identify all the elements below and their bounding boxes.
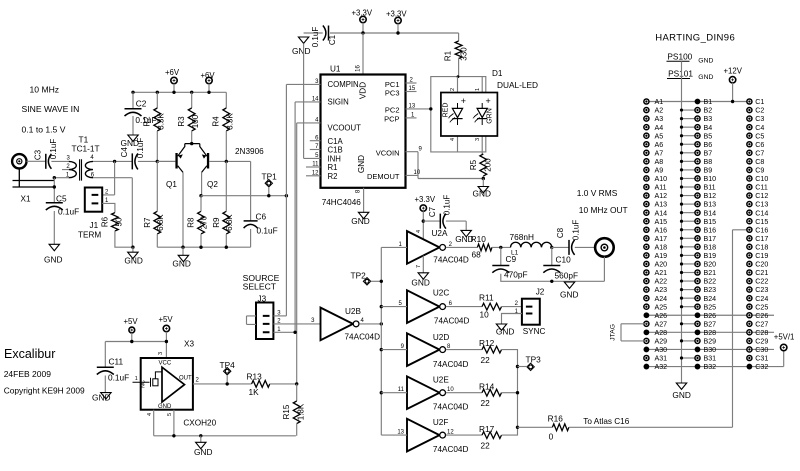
svg-text:A20: A20 [655, 261, 668, 269]
LED GRN element [477, 108, 487, 117]
HARTING row 17: pins A17 B17 C17 [644, 236, 649, 241]
svg-text:B26: B26 [704, 312, 717, 320]
junction rail/+6V1 [172, 91, 175, 94]
ground below X3 [196, 442, 206, 448]
svg-text:A8: A8 [655, 158, 664, 166]
HARTING row 22: pins A22 B22 C22 [644, 279, 649, 284]
svg-text:A18: A18 [655, 243, 668, 251]
svg-text:7: 7 [416, 265, 422, 268]
svg-text:74AC04D: 74AC04D [433, 445, 469, 454]
svg-text:C27: C27 [755, 320, 768, 328]
wire U1 pin14 SIGIN to J3 pin1 [295, 102, 320, 333]
svg-text:GND: GND [44, 255, 62, 265]
svg-text:OUT: OUT [179, 375, 192, 381]
wire GND stub row 31 [682, 357, 698, 359]
wire PS101 underline [667, 78, 690, 80]
wire T1 pin 1 to X1 shell node [54, 177, 68, 179]
op-amp U1 74HC4046 body [321, 75, 406, 188]
svg-text:U2A: U2A [432, 229, 448, 238]
HARTING row 2: pins A2 B2 C2 [644, 108, 649, 113]
svg-text:14: 14 [312, 97, 319, 103]
wire J3 jumper bracket [247, 316, 257, 325]
svg-text:B28: B28 [704, 329, 717, 337]
wire GND stub row 10 [682, 177, 698, 179]
svg-text:+5V: +5V [159, 315, 174, 324]
svg-text:TP2: TP2 [351, 271, 367, 281]
HARTING row 15: pins A15 B15 C15 [644, 219, 649, 224]
capacitor C4 [131, 153, 133, 169]
svg-text:GND: GND [698, 58, 713, 65]
junction J3 pin1/SIGIN line [293, 331, 296, 334]
inverter U2C 74AC04D [407, 290, 440, 323]
wire Q1 emitter down [182, 172, 184, 247]
svg-text:1.8K: 1.8K [297, 403, 306, 420]
svg-text:R5: R5 [469, 159, 478, 170]
junction bus/U2B out [380, 322, 383, 325]
svg-text:50: 50 [115, 217, 124, 226]
svg-text:GND: GND [672, 390, 690, 400]
svg-text:C4: C4 [755, 124, 764, 132]
wire X1 center to C3 [27, 160, 46, 162]
HARTING row 1: pins A1 B1 C1 [644, 99, 649, 104]
resistor R10 [477, 244, 492, 251]
svg-text:+: + [461, 96, 466, 106]
svg-text:A24: A24 [655, 295, 668, 303]
svg-text:A31: A31 [655, 355, 668, 363]
svg-text:R1: R1 [444, 50, 453, 61]
wire +3.3V drops [363, 23, 398, 33]
HARTING row 26: pins A26 B26 C26 [644, 312, 650, 318]
svg-text:1: 1 [135, 376, 138, 382]
svg-text:D1: D1 [492, 69, 503, 78]
junction R5/DEMOUT/GND [482, 177, 485, 180]
wire U1 pin6 stub [310, 140, 321, 142]
wire jack shell to rail [603, 257, 605, 282]
wire D1 cathode drops [458, 136, 483, 154]
wire rail to R4 [225, 92, 227, 108]
svg-text:10: 10 [480, 309, 490, 319]
wire Q2 base right [209, 160, 250, 162]
wire U1 pin1 stub [406, 117, 417, 119]
wire GND stub row 2 [682, 109, 698, 111]
wire rail to C2 [132, 92, 134, 109]
svg-text:RED: RED [443, 103, 450, 118]
wire U1 pin2 stub [406, 82, 417, 84]
svg-text:C6: C6 [755, 141, 764, 149]
junction L1/C10/C8 [550, 246, 553, 249]
svg-text:PC2: PC2 [385, 106, 400, 115]
svg-text:U2C: U2C [433, 289, 449, 298]
svg-text:C4: C4 [120, 147, 129, 158]
power +5V/1 [781, 344, 787, 350]
wire bus to U2A input [381, 246, 407, 248]
svg-text:A14: A14 [655, 209, 668, 217]
wire U1 pin7 stub [310, 149, 321, 151]
svg-text:10: 10 [414, 170, 421, 176]
svg-text:R9: R9 [212, 217, 221, 228]
svg-text:Excalibur: Excalibur [4, 347, 55, 361]
svg-text:GND: GND [124, 256, 142, 266]
svg-text:TERM: TERM [78, 231, 101, 240]
svg-text:X1: X1 [21, 195, 31, 204]
X3 internal oscillator symbol [162, 367, 185, 402]
svg-text:B20: B20 [704, 261, 717, 269]
svg-text:A27: A27 [655, 320, 668, 328]
resistor R6 [112, 213, 119, 231]
svg-text:11: 11 [398, 387, 405, 393]
junction VCC/C7 [422, 219, 425, 222]
junction R6/T1-6 ground [131, 246, 134, 249]
svg-text:3: 3 [475, 138, 481, 141]
wire U1 pin15 stub [406, 91, 417, 93]
junction bus/U2D [380, 348, 383, 351]
wire HARTING ground bus [681, 61, 683, 383]
svg-text:A7: A7 [655, 149, 664, 157]
wire R10 to L1 [492, 246, 511, 248]
svg-text:GND: GND [496, 327, 514, 337]
ground below C2 [128, 135, 138, 141]
svg-text:C19: C19 [755, 252, 768, 260]
svg-text:68: 68 [472, 250, 482, 260]
svg-text:1.0 V RMS: 1.0 V RMS [577, 188, 618, 198]
svg-text:3.3K: 3.3K [157, 113, 166, 130]
svg-text:A13: A13 [655, 201, 668, 209]
svg-text:74AC04D: 74AC04D [433, 403, 469, 412]
power +5V #2 [163, 325, 169, 331]
svg-text:PCP: PCP [384, 115, 399, 124]
junction rail/+3.3V2 [396, 31, 399, 34]
wire R1 to D1 [458, 59, 460, 77]
junction X3 pin5 [172, 434, 175, 437]
svg-text:TP3: TP3 [526, 355, 542, 365]
svg-text:A25: A25 [655, 303, 668, 311]
wire U2F out to R17 [446, 434, 482, 436]
wire To Atlas C16 to connector [569, 230, 750, 427]
inverter U2A 74AC04D [407, 231, 440, 264]
wire R3 to Q collectors [191, 131, 193, 144]
resistor R4 [223, 108, 230, 131]
svg-text:470pF: 470pF [504, 270, 528, 280]
junction rail/+3.3V1 [361, 31, 364, 34]
junction +5V1 [130, 340, 133, 343]
junction R17/R16 [516, 426, 519, 429]
svg-text:A32: A32 [655, 363, 668, 371]
wire GND stub row 9 [682, 169, 698, 171]
wire R9 leads [225, 161, 227, 247]
junction bus/TP2 [380, 280, 383, 283]
wire row 1 (+12V) A1-B1-C1 [646, 101, 749, 103]
svg-text:GND: GND [411, 278, 429, 288]
wire T1 pin 4 to C4 [93, 160, 132, 162]
power +3.3V #3 [420, 205, 426, 211]
HARTING row 8: pins A8 B8 C8 [644, 159, 649, 164]
wire C2 to GND [132, 116, 134, 135]
svg-text:B9: B9 [704, 167, 713, 175]
wire U2A GND stub [422, 256, 424, 273]
wire U1 pin11 stub [306, 166, 321, 168]
capacitor C1 [328, 26, 330, 41]
svg-text:J2: J2 [536, 288, 545, 297]
wire GND stub row 11 [682, 186, 698, 188]
svg-text:R17: R17 [479, 424, 495, 434]
HARTING row 14: pins A14 B14 C14 [644, 210, 649, 215]
capacitor C11 [97, 366, 114, 368]
wire GND stub row 7 [682, 152, 698, 154]
svg-text:22: 22 [481, 355, 491, 365]
svg-text:B25: B25 [704, 303, 717, 311]
svg-text:C8: C8 [755, 158, 764, 166]
wire to C9 [500, 247, 502, 265]
HARTING row 32: pins A32 B32 C32 [644, 364, 650, 370]
wire +6V rail [133, 91, 226, 93]
svg-text:TC1-1T: TC1-1T [72, 144, 100, 154]
svg-text:2: 2 [450, 88, 456, 91]
svg-text:R12: R12 [479, 338, 495, 348]
wire J3 pin1 [273, 331, 295, 333]
svg-text:GND: GND [158, 404, 172, 410]
wire rail to R3 [191, 92, 193, 108]
resistor R8 [198, 211, 205, 234]
svg-text:C9: C9 [755, 167, 764, 175]
capacitor C3 [45, 154, 47, 169]
svg-text:0.1 to 1.5 V: 0.1 to 1.5 V [22, 125, 66, 135]
wire U1 pin4 VCOOUT down [297, 123, 321, 384]
resistor R14 [482, 389, 501, 396]
svg-text:Q2: Q2 [207, 180, 218, 189]
svg-text:24FEB 2009: 24FEB 2009 [4, 369, 52, 379]
resistor R3 [188, 108, 195, 131]
svg-text:C18: C18 [755, 243, 768, 251]
wire rail to C11 [104, 342, 106, 368]
junction +12V/row1 [731, 100, 734, 103]
svg-text:22: 22 [481, 440, 491, 450]
svg-text:A12: A12 [655, 192, 668, 200]
svg-text:+6V: +6V [165, 68, 180, 77]
svg-text:GND: GND [473, 189, 491, 199]
svg-text:6.8K: 6.8K [225, 214, 234, 231]
svg-text:C14: C14 [755, 209, 768, 217]
svg-text:3.3K: 3.3K [226, 113, 235, 130]
transformer T1 TC1-1T [69, 161, 77, 177]
svg-text:C10: C10 [556, 255, 572, 265]
svg-text:VCOIN: VCOIN [376, 148, 400, 157]
junction R14/bus [516, 391, 519, 394]
svg-text:U2B: U2B [345, 307, 361, 316]
HARTING row 3: pins A3 B3 C3 [644, 116, 649, 121]
wire stub rail GND [182, 247, 184, 255]
capacitor C7 [439, 214, 441, 229]
svg-text:B23: B23 [704, 286, 717, 294]
wire R8 leads [200, 196, 202, 248]
resistor R9 [223, 211, 230, 234]
svg-text:C8: C8 [556, 227, 565, 238]
capacitor C5 [46, 202, 63, 204]
svg-text:DEMOUT: DEMOUT [367, 172, 400, 181]
svg-text:16: 16 [355, 65, 361, 72]
HARTING row 31: pins A31 B31 C31 [644, 355, 649, 360]
svg-text:B10: B10 [704, 175, 717, 183]
svg-text:R1: R1 [328, 163, 338, 172]
wire +12V drop [732, 83, 734, 102]
svg-text:A23: A23 [655, 286, 668, 294]
svg-text:GND: GND [194, 447, 212, 457]
wire bus to U2F input [381, 434, 407, 436]
HARTING row 21: pins A21 B21 C21 [644, 270, 649, 275]
svg-text:+3.3V: +3.3V [415, 195, 436, 204]
wire GND stub row 12 [682, 195, 698, 197]
svg-text:13: 13 [409, 104, 416, 110]
svg-text:R14: R14 [479, 381, 495, 391]
svg-text:1K: 1K [249, 387, 260, 397]
svg-text:A21: A21 [655, 269, 668, 277]
ground below C5 [49, 244, 59, 250]
wire stub to GND [482, 179, 484, 187]
wire PS100 underline [667, 60, 690, 62]
junction X1 shell / T1 pin1 [53, 176, 56, 179]
wire GND stub row 29 [682, 340, 698, 342]
svg-text:A19: A19 [655, 252, 668, 260]
svg-text:B18: B18 [704, 243, 717, 251]
svg-text:HARTING_DIN96: HARTING_DIN96 [655, 33, 735, 44]
svg-text:C13: C13 [755, 201, 768, 209]
junction bus/U2E [380, 391, 383, 394]
resistor R7 [154, 211, 161, 234]
svg-text:A15: A15 [655, 218, 668, 226]
svg-text:B15: B15 [704, 218, 717, 226]
svg-text:Copyright KE9H 2009: Copyright KE9H 2009 [4, 385, 85, 395]
wire X3 ground run [154, 435, 296, 437]
junction Q1/Q2 collectors [190, 142, 193, 145]
svg-text:B27: B27 [704, 320, 717, 328]
wire C8 to output jack [575, 246, 600, 248]
svg-text:0.1uF: 0.1uF [58, 207, 79, 217]
svg-text:B8: B8 [704, 158, 713, 166]
resistor R13 [252, 381, 270, 388]
svg-text:4: 4 [450, 138, 456, 141]
wire J2 pin1 to GND [502, 314, 522, 325]
svg-text:R11: R11 [479, 292, 494, 302]
svg-text:R8: R8 [186, 217, 195, 228]
svg-text:A1: A1 [655, 98, 664, 106]
HARTING row 25: pins A25 B25 C25 [644, 304, 649, 309]
wire TP4 stub [226, 375, 228, 384]
wire GND stub row 15 [682, 220, 698, 222]
svg-text:6.8K: 6.8K [156, 214, 165, 231]
svg-text:VCC: VCC [159, 361, 172, 367]
svg-text:B7: B7 [704, 149, 713, 157]
inverter U2E 74AC04D [407, 376, 440, 409]
svg-text:C24: C24 [755, 295, 768, 303]
HARTING row 29: pins A29 B29 C29 [644, 338, 649, 343]
svg-text:B3: B3 [704, 115, 713, 123]
svg-text:B31: B31 [704, 355, 717, 363]
svg-text:GND: GND [92, 393, 110, 403]
ground below J2 [496, 324, 506, 330]
wire GND stub row 23 [682, 289, 698, 291]
wire bus to U2E input [381, 392, 407, 394]
junction rail/R9 [225, 246, 228, 249]
wire GND stub row 3 [682, 118, 698, 120]
svg-text:A2: A2 [655, 107, 664, 115]
svg-text:C5: C5 [755, 132, 764, 140]
svg-text:TP4: TP4 [220, 360, 236, 370]
HARTING row 28: pins A28 B28 C28 [644, 329, 650, 335]
svg-text:GND: GND [357, 155, 366, 173]
wire U2A out to R10 [446, 246, 478, 248]
svg-text:To Atlas C16: To Atlas C16 [583, 417, 629, 426]
wire R5 to node [482, 176, 484, 179]
wire to R16 [518, 426, 553, 428]
transistor Q2 (2N3906) [207, 153, 209, 169]
svg-text:COMPIN: COMPIN [328, 80, 359, 89]
svg-text:A17: A17 [655, 235, 668, 243]
connector X1 (coax input) [12, 154, 26, 168]
ground HARTING bus [676, 383, 686, 389]
svg-text:0: 0 [549, 432, 554, 442]
svg-text:B17: B17 [704, 235, 717, 243]
svg-text:11: 11 [312, 162, 319, 168]
wire down to J1 pin 2 [102, 161, 114, 195]
svg-text:4: 4 [147, 413, 153, 416]
wire GND stub row 13 [682, 203, 698, 205]
inverter U2F 74AC04D [407, 419, 440, 452]
wire R2 to Q1 base node [156, 131, 158, 161]
svg-text:U2D: U2D [433, 333, 449, 342]
junction PC2/D1 box [429, 107, 432, 110]
inductor L1 768nH [511, 242, 552, 247]
resistor R5 [480, 154, 487, 176]
power +12V [729, 77, 735, 83]
svg-text:A5: A5 [655, 132, 664, 140]
HARTING row 18: pins A18 B18 C18 [644, 244, 649, 249]
svg-text:B5: B5 [704, 132, 713, 140]
testpoint TP3 [527, 363, 534, 370]
svg-text:CXOH20: CXOH20 [183, 419, 216, 428]
wire C5 to GND [53, 211, 55, 244]
svg-text:0.1uF: 0.1uF [311, 27, 320, 48]
ground output rail [564, 282, 574, 288]
HARTING row 9: pins A9 B9 C9 [644, 167, 649, 172]
wire R4 to Q2 base node [225, 131, 227, 161]
svg-text:C31: C31 [755, 355, 768, 363]
wire GND stub row 17 [682, 237, 698, 239]
wire VDD pin 16 [362, 33, 364, 75]
wire bus to U2C input [381, 306, 407, 308]
wire TP1 stub [268, 187, 270, 196]
power +6V #2 [206, 77, 212, 83]
wire R2 node to Q1 base [157, 160, 175, 162]
svg-text:C28: C28 [755, 329, 768, 337]
wire +6V drops [174, 84, 209, 93]
HARTING row 12: pins A12 B12 C12 [644, 193, 649, 198]
wire U1 pin12 stub [306, 175, 321, 177]
wire U1 pin5 INH [304, 157, 321, 159]
svg-text:B4: B4 [704, 124, 713, 132]
ground at C1 [298, 37, 308, 43]
svg-text:200: 200 [483, 158, 492, 172]
wire Q2 emitter down [201, 172, 203, 195]
svg-text:GND: GND [698, 74, 713, 81]
svg-text:74AC04D: 74AC04D [434, 317, 470, 326]
wire stub to GND [200, 436, 202, 443]
svg-text:VCOOUT: VCOOUT [328, 124, 362, 133]
svg-text:12: 12 [312, 170, 319, 176]
wire R17 to node [502, 427, 518, 435]
svg-text:C11: C11 [109, 357, 124, 367]
svg-text:C1B: C1B [328, 146, 343, 155]
HARTING row 27: pins A27 B27 C27 [644, 321, 649, 326]
svg-text:0.1uF: 0.1uF [572, 220, 581, 241]
